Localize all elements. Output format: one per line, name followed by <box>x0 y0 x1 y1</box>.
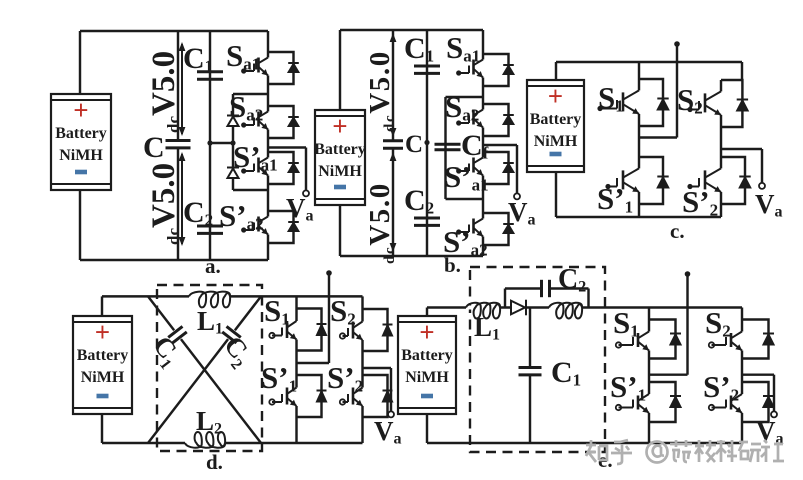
svg-text:+: + <box>419 317 434 347</box>
svg-text:Battery: Battery <box>401 347 453 364</box>
svg-text:NiMH: NiMH <box>59 147 103 164</box>
svg-text:+: + <box>95 317 110 347</box>
svg-text:NiMH: NiMH <box>81 369 125 386</box>
svg-text:NiMH: NiMH <box>405 369 449 386</box>
svg-text:+: + <box>73 95 88 125</box>
svg-text:c.: c. <box>670 219 685 243</box>
svg-text:C: C <box>143 131 165 164</box>
svg-text:Battery: Battery <box>55 125 107 142</box>
svg-text:+: + <box>548 81 563 111</box>
svg-text:C: C <box>405 131 423 158</box>
svg-text:d.: d. <box>206 450 223 474</box>
svg-text:b.: b. <box>444 253 461 277</box>
svg-text:+: + <box>332 111 347 141</box>
svg-text:NiMH: NiMH <box>534 133 578 150</box>
svg-text:a.: a. <box>205 254 221 278</box>
svg-text:Battery: Battery <box>77 347 129 364</box>
svg-text:Battery: Battery <box>314 141 366 158</box>
svg-text:NiMH: NiMH <box>318 163 362 180</box>
svg-text:Battery: Battery <box>530 111 582 128</box>
